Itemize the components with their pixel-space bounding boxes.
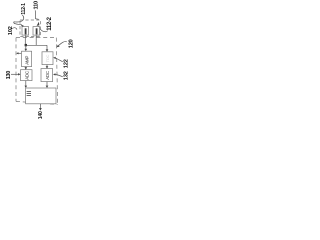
svg-text:AMP: AMP bbox=[24, 56, 29, 65]
wire leader 120 bbox=[59, 42, 67, 46]
junction node bbox=[25, 44, 27, 46]
dashed box 120 bbox=[16, 37, 56, 39]
svg-text:TDC: TDC bbox=[45, 54, 50, 62]
photodiode 112-2 bbox=[33, 27, 40, 35]
wire adc to processor bbox=[25, 81, 27, 87]
svg-text:110: 110 bbox=[33, 1, 39, 10]
svg-text:112-1: 112-1 bbox=[21, 3, 27, 15]
wire amp to adc bbox=[25, 67, 27, 69]
wire leader 130 bbox=[11, 73, 20, 75]
wire leader 132 bbox=[55, 74, 63, 76]
dashed box 110 bbox=[20, 20, 41, 37]
memory bars bbox=[27, 90, 31, 92]
svg-text:112-2: 112-2 bbox=[47, 16, 53, 30]
svg-text:102: 102 bbox=[8, 26, 14, 35]
adc box 116 bbox=[21, 70, 33, 81]
amp box 114 bbox=[22, 51, 32, 66]
svg-text:122: 122 bbox=[63, 59, 69, 68]
wire bus horizontal bbox=[25, 44, 47, 46]
wire leader 102 bbox=[12, 28, 17, 30]
wire stub into amp box bbox=[17, 52, 21, 54]
wire into amp box bbox=[25, 46, 27, 50]
svg-text:ADC: ADC bbox=[24, 70, 29, 80]
wire leader 112-1 bbox=[14, 15, 24, 25]
wire corner to tdc bbox=[46, 45, 48, 50]
wire tdc to adc2 bbox=[46, 65, 48, 67]
wire from 112-2 down bbox=[35, 35, 37, 45]
svg-text:ADC: ADC bbox=[45, 70, 50, 80]
tdc box 122 bbox=[42, 52, 53, 65]
svg-text:120: 120 bbox=[69, 39, 75, 48]
svg-text:132: 132 bbox=[64, 71, 70, 80]
svg-text:130: 130 bbox=[6, 71, 12, 80]
adc box 132 bbox=[41, 69, 53, 82]
svg-text:140: 140 bbox=[38, 111, 44, 119]
wire leader 110 bbox=[35, 10, 39, 19]
output wire bbox=[39, 104, 41, 109]
wire leader 122 bbox=[55, 58, 63, 62]
wire leader 112-2 bbox=[39, 26, 48, 32]
wire adc2 to processor bbox=[46, 82, 48, 87]
processor box 140 bbox=[26, 88, 56, 104]
photodiode 112-1 bbox=[22, 27, 29, 35]
wire from 112-1 down bbox=[24, 35, 26, 44]
